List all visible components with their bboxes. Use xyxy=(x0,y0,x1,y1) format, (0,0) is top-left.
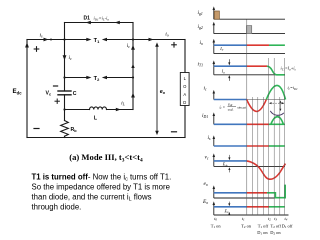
source current arrow up xyxy=(25,42,29,47)
waveform ic xyxy=(214,85,286,111)
wire capacitor branch vertical xyxy=(64,40,66,92)
arrow i_c down xyxy=(63,55,67,60)
svg-text:t1: t1 xyxy=(242,216,245,222)
row io axis xyxy=(214,42,285,54)
svg-text:T1 on: T1 on xyxy=(211,223,222,229)
svg-text:T2: T2 xyxy=(94,76,100,82)
svg-text:iD1=iL-io: iD1=iL-io xyxy=(94,16,110,22)
svg-text:t2: t2 xyxy=(268,216,271,222)
svg-text:ic: ic xyxy=(127,43,131,49)
svg-text:t3: t3 xyxy=(274,216,277,222)
annotation tc double arrow xyxy=(269,102,285,104)
plus sign right xyxy=(172,43,177,48)
svg-text:T1: T1 xyxy=(94,38,100,44)
junction dots xyxy=(50,38,134,110)
plus sign left xyxy=(34,47,39,52)
svg-text:ic: ic xyxy=(204,86,208,92)
svg-text:A: A xyxy=(183,92,186,97)
e_o voltage arrow xyxy=(156,46,158,133)
row ig2 axis xyxy=(214,25,285,34)
row is axis xyxy=(213,139,215,147)
svg-text:D2 on: D2 on xyxy=(270,230,281,236)
thyristor T1 xyxy=(86,38,91,42)
wire top rail left of T1 xyxy=(27,39,87,41)
wire left vertical (source branch) xyxy=(26,40,28,138)
svg-text:eo: eo xyxy=(160,89,166,95)
svg-text:Vc: Vc xyxy=(46,91,52,97)
waveform Eo xyxy=(214,206,285,208)
thyristor T2 symbol xyxy=(86,76,91,80)
svg-text:iL: iL xyxy=(121,101,126,107)
svg-text:ω0L: ω0L xyxy=(228,108,234,113)
interval vertical t1 long xyxy=(246,20,248,216)
annotation vertical arrow xyxy=(279,100,281,111)
wire bottom rail xyxy=(27,137,185,139)
svg-text:iD1: iD1 xyxy=(202,113,208,119)
arrow i_D1 xyxy=(115,21,120,25)
svg-text:T1 is turned off- Now the ic t: T1 is turned off- Now the ic turns off T… xyxy=(32,172,172,182)
svg-text:(a) Mode III, t3<t<t4: (a) Mode III, t3<t<t4 xyxy=(69,152,143,163)
svg-text:T1 off: T1 off xyxy=(258,223,269,229)
annotation Edc arrows xyxy=(222,155,231,173)
svg-text:than diode, and the current iL: than diode, and the current iL flows xyxy=(32,192,152,202)
waveform iD1 xyxy=(214,117,285,125)
inductor L xyxy=(90,107,107,110)
load box xyxy=(180,73,189,106)
svg-text:io: io xyxy=(165,32,169,38)
svg-text:is: is xyxy=(208,135,212,141)
svg-text:D1 off: D1 off xyxy=(282,223,293,229)
svg-text:T2 on: T2 on xyxy=(241,223,252,229)
time labels xyxy=(214,216,288,222)
svg-text:vc: vc xyxy=(205,155,209,161)
svg-text:D1: D1 xyxy=(84,16,91,22)
arrow i_c up (middle vertical) xyxy=(131,45,135,50)
svg-text:C: C xyxy=(73,91,77,97)
svg-text:ig1: ig1 xyxy=(198,10,203,16)
svg-text:ic=iD1: ic=iD1 xyxy=(288,85,299,91)
annotation curved arrow xyxy=(270,111,284,115)
row iT1 axis xyxy=(214,64,285,75)
arrow i_o xyxy=(149,38,154,42)
row eo axis xyxy=(214,189,285,199)
diode D1 branch wire xyxy=(65,22,134,24)
arrow up small (middle vertical) xyxy=(131,64,134,68)
svg-text:t0: t0 xyxy=(214,216,217,222)
row iD1 axis xyxy=(213,116,215,125)
minus sign left xyxy=(34,128,39,130)
waveform io xyxy=(214,44,285,46)
arrow i_s xyxy=(44,38,49,42)
minus sign right xyxy=(172,131,177,133)
svg-text:ig2: ig2 xyxy=(198,24,203,30)
row ig1 axis xyxy=(214,10,285,20)
svg-text:ic: ic xyxy=(69,55,73,61)
TEXT BLOCK xyxy=(32,172,172,211)
wire inductor to right branch xyxy=(107,109,134,111)
waveform is xyxy=(214,145,285,147)
switching captions xyxy=(211,223,293,235)
svg-text:Edc: Edc xyxy=(222,163,229,168)
svg-text:t4: t4 xyxy=(285,216,288,222)
annotation Eo arrow xyxy=(224,202,231,214)
annotation Io arrow row4 xyxy=(221,59,231,81)
capacitor C xyxy=(58,90,71,92)
svg-text:Eo: Eo xyxy=(202,199,208,205)
row vc axis xyxy=(214,157,285,167)
waveform eo xyxy=(214,185,285,198)
waveform vc xyxy=(214,161,286,179)
svg-text:iT1=Io+ic: iT1=Io+ic xyxy=(281,66,297,72)
svg-text:eo: eo xyxy=(204,181,208,187)
plus below capacitor xyxy=(55,99,59,103)
arrow i_L right xyxy=(116,108,121,112)
gate pulse ig1 xyxy=(214,11,219,19)
svg-text:D1 on: D1 on xyxy=(257,230,268,236)
svg-text:So the impedance offered by T1: So the impedance offered by T1 is more xyxy=(32,182,170,191)
svg-text:sinω0t: sinω0t xyxy=(237,106,247,111)
WAVEFORM PANEL xyxy=(198,6,299,235)
wire below capacitor xyxy=(64,95,66,121)
svg-text:Edc: Edc xyxy=(13,88,23,95)
svg-text:Eo: Eo xyxy=(224,208,229,214)
diode D1 symbol xyxy=(86,21,91,25)
waveform iT1 xyxy=(214,66,285,75)
wire right vertical lower xyxy=(184,106,186,138)
gate pulse ig2 xyxy=(247,26,252,34)
interval verticals xyxy=(252,58,284,215)
svg-text:ic =: ic = xyxy=(220,106,226,111)
svg-text:Io: Io xyxy=(221,69,225,75)
svg-text:iT1: iT1 xyxy=(198,62,204,68)
thyristor T2 wires xyxy=(65,77,88,79)
svg-text:L: L xyxy=(94,116,98,122)
svg-text:D: D xyxy=(183,100,186,105)
formula ic xyxy=(220,102,247,112)
svg-text:T2 off: T2 off xyxy=(271,223,282,229)
svg-text:io: io xyxy=(200,40,204,46)
row Eo axis xyxy=(213,205,215,216)
resistor Rb xyxy=(61,121,69,137)
wire middle vertical (T2/L branch) xyxy=(132,23,134,110)
svg-text:Rb: Rb xyxy=(71,127,78,133)
wire top rail right of T1 xyxy=(107,39,186,41)
svg-text:is: is xyxy=(39,33,43,39)
wire right vertical upper xyxy=(184,40,186,73)
time axis xyxy=(214,214,289,216)
minus above capacitor xyxy=(54,85,58,87)
svg-text:through diode.: through diode. xyxy=(32,202,82,211)
svg-text:Io: Io xyxy=(219,46,223,52)
wire to inductor xyxy=(65,109,90,111)
annotation up arrow on time axis xyxy=(228,212,230,215)
arrow i_L up (middle vertical) xyxy=(131,93,135,98)
row ic axis xyxy=(213,93,215,100)
